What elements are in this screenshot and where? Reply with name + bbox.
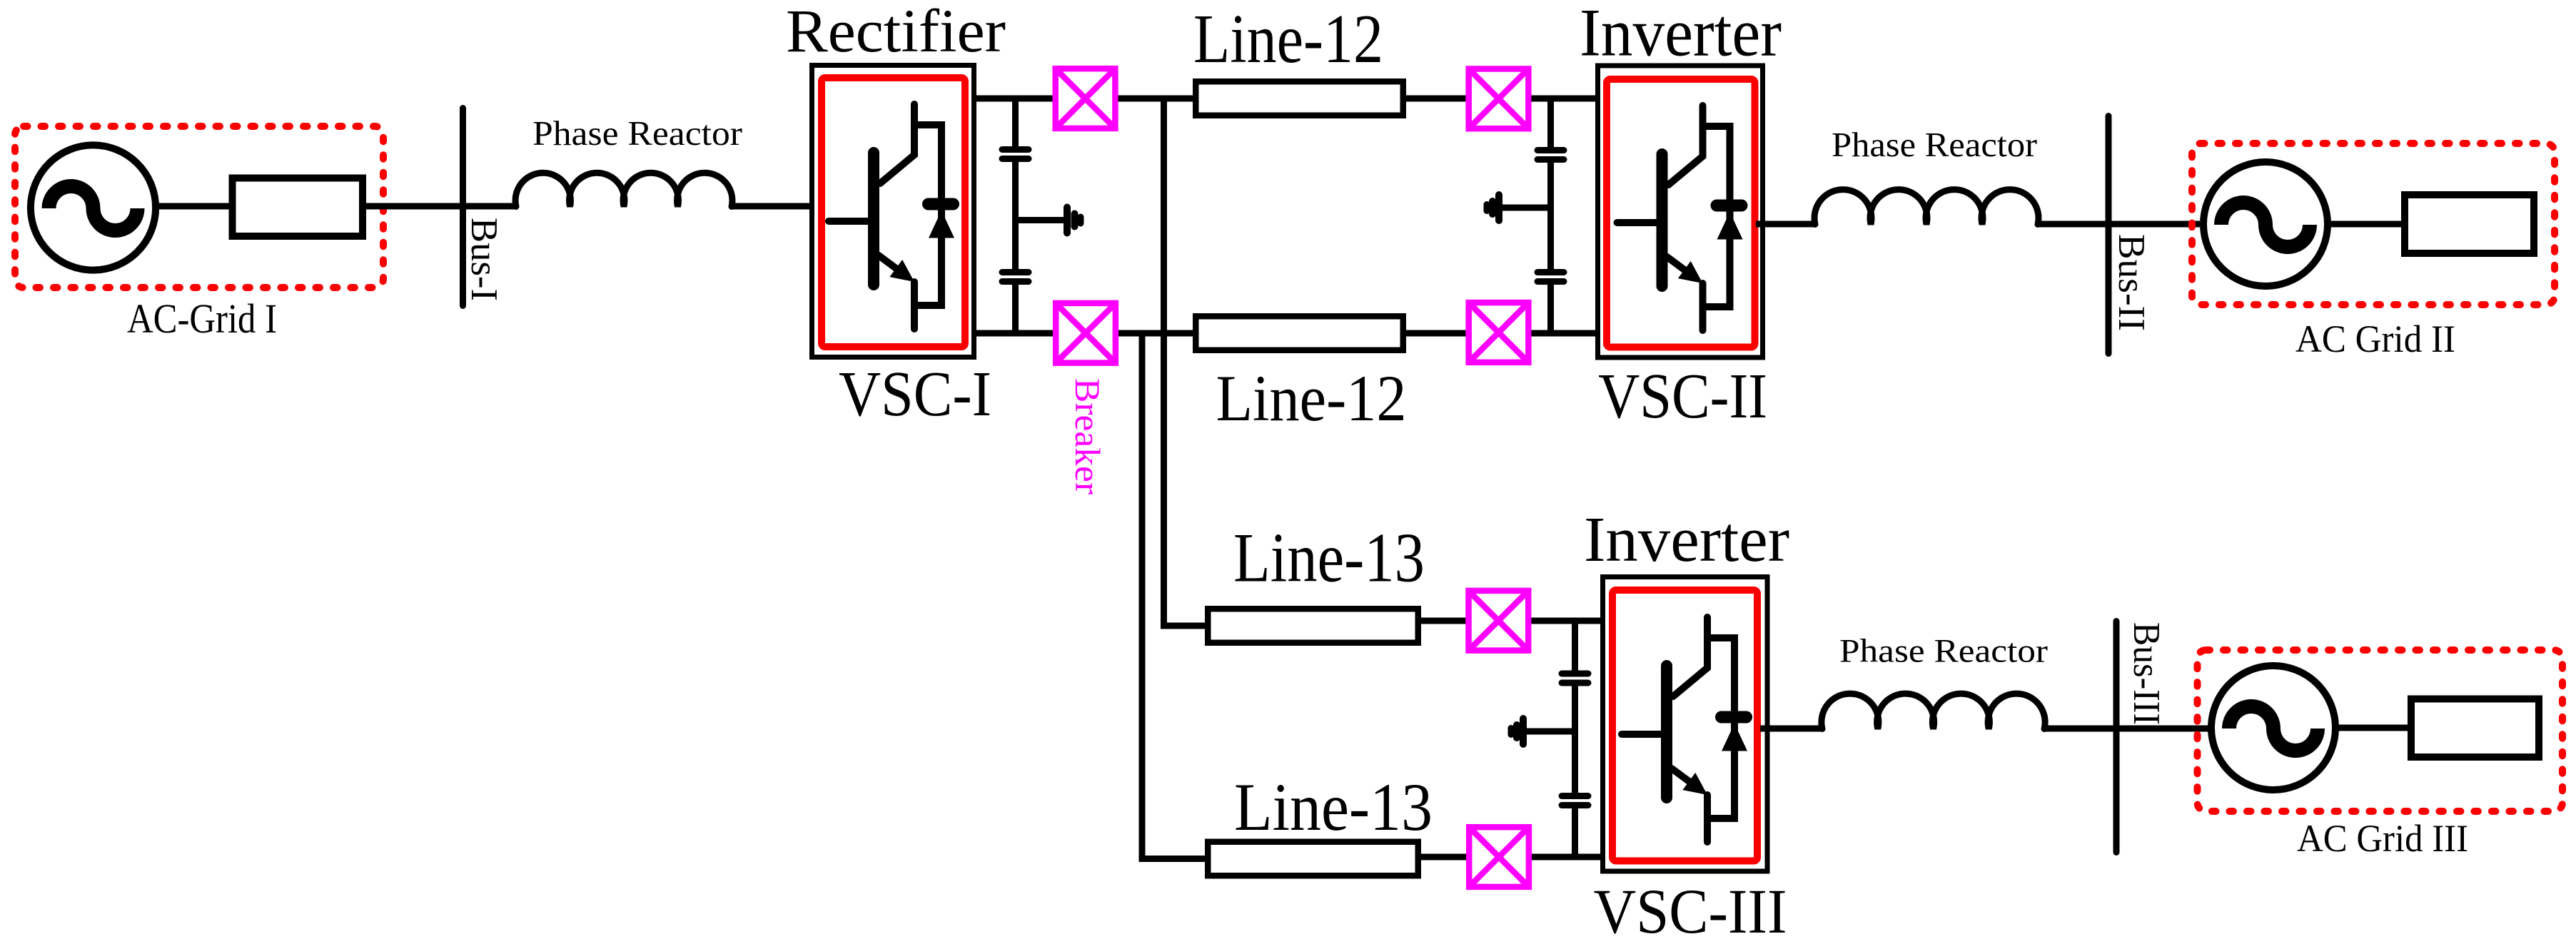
VSC converter VSC-III red inner box [1612, 590, 1757, 861]
grid impedance Z3 rectangle [2411, 699, 2539, 758]
svg-text:Bus-II: Bus-II [2111, 234, 2152, 331]
wire G3 to Z3 [2335, 725, 2411, 731]
IGBT with antiparallel diode inside VSC-I [829, 104, 954, 329]
svg-text:AC Grid II: AC Grid II [2295, 318, 2455, 360]
svg-text:Bus-I: Bus-I [463, 218, 505, 301]
DC-link capacitor branch C1 [1002, 98, 1029, 333]
top DC wire breaker to VSC-III [1532, 618, 1606, 624]
wire G2 to Z2 [2328, 221, 2405, 228]
AC Grid II red dashed boundary box [2192, 143, 2555, 305]
svg-text:VSC-I: VSC-I [839, 359, 991, 430]
VSC converter VSC-II black box [1598, 66, 1763, 357]
transmission line box Line-13 lower [1208, 842, 1418, 876]
svg-text:Line-12: Line-12 [1193, 1, 1383, 77]
phase reactor coil L3 [1822, 694, 2045, 729]
sine wave glyph G3 [2229, 706, 2318, 751]
wire reactor L3 to Bus-III to grid III [2044, 726, 2212, 732]
breaker B3 top [1469, 591, 1529, 651]
VSC converter VSC-I black box [812, 66, 974, 357]
AC-Grid I red dashed boundary box [15, 126, 383, 288]
ground stub wire GND1 [1016, 217, 1064, 223]
sine wave glyph G1 [49, 186, 138, 230]
ground symbol GND1 [1067, 208, 1081, 233]
Bus-III bar [2113, 621, 2120, 853]
wire reactor L2 to Bus-II to grid II [2038, 221, 2200, 228]
IGBT with antiparallel diode inside VSC-III [1622, 617, 1747, 842]
AC source circle G3 [2211, 666, 2335, 790]
transmission line box Line-13 upper [1208, 609, 1418, 643]
svg-text:Line-12: Line-12 [1216, 362, 1407, 435]
bottom DC wire breaker to Line-12 with junction node B [1118, 330, 1193, 337]
branch wire node B down to Line-13 lower [1142, 333, 1205, 859]
grid impedance Z2 rectangle [2405, 195, 2534, 253]
svg-text:Line-13: Line-13 [1233, 519, 1425, 597]
wire Line-13 lower to breaker B3b [1421, 854, 1466, 861]
grid impedance Z1 rectangle [233, 178, 363, 237]
ground stub wire GND2 [1502, 205, 1551, 211]
AC source circle G1 [31, 145, 156, 270]
DC-link capacitor branch C3 [1562, 621, 1588, 857]
ground stub wire GND3 [1527, 729, 1575, 735]
svg-text:Phase Reactor: Phase Reactor [1839, 633, 2048, 670]
sine wave glyph G2 [2221, 203, 2310, 247]
wire Line-12 top to breaker B2t [1406, 96, 1466, 102]
wire reactor L1 to VSC-I [732, 203, 814, 210]
breaker B1 top [1056, 68, 1116, 128]
VSC converter VSC-II red inner box [1607, 79, 1755, 347]
VSC converter VSC-III black box [1603, 577, 1768, 872]
breaker B3 bottom [1469, 827, 1529, 887]
top DC wire breaker to VSC-II [1532, 96, 1601, 102]
svg-text:VSC-II: VSC-II [1598, 361, 1767, 432]
phase reactor coil L2 [1814, 190, 2039, 225]
transmission line box Line-12 top [1196, 81, 1403, 116]
breaker B2 bottom [1469, 303, 1529, 362]
Bus-I bar [460, 108, 466, 306]
branch wire node A down to Line-13 upper [1164, 98, 1206, 626]
wire VSC-II to phase reactor L2 [1756, 221, 1815, 228]
top DC wire breaker to Line-12 with junction node A [1118, 96, 1193, 102]
IGBT with antiparallel diode inside VSC-II [1617, 106, 1743, 330]
wire VSC-III to phase reactor L3 [1760, 726, 1822, 732]
AC Grid III red dashed boundary box [2198, 650, 2563, 811]
phase reactor coil L1 [515, 173, 732, 206]
wire Line-12 bottom to breaker B2b [1406, 330, 1466, 337]
DC-link capacitor branch C2 [1537, 98, 1564, 333]
bottom DC wire VSC-I to breaker [976, 330, 1053, 337]
svg-text:VSC-III: VSC-III [1594, 877, 1787, 944]
svg-text:Rectifier: Rectifier [786, 0, 1006, 65]
svg-text:Phase Reactor: Phase Reactor [532, 113, 742, 153]
wire G1 to Z1 [156, 203, 232, 210]
transmission line box Line-12 bottom [1196, 316, 1403, 350]
bottom DC wire breaker to VSC-III [1532, 854, 1605, 861]
svg-text:Breaker: Breaker [1068, 378, 1108, 494]
wire Line-13 upper to breaker B3t [1421, 618, 1466, 624]
VSC converter VSC-I red inner box [822, 78, 965, 347]
AC source circle G2 [2203, 162, 2328, 286]
top DC wire VSC-I to breaker [976, 96, 1053, 102]
wire Z1 to Bus-I to phase reactor [363, 203, 516, 210]
ground symbol GND3 [1511, 719, 1523, 744]
svg-text:AC Grid III: AC Grid III [2297, 817, 2468, 860]
breaker B2 top [1469, 69, 1529, 129]
svg-text:Inverter: Inverter [1580, 0, 1782, 70]
Bus-II bar [2106, 116, 2112, 354]
svg-text:Inverter: Inverter [1584, 504, 1789, 575]
svg-text:Bus-III: Bus-III [2126, 622, 2167, 725]
svg-text:Line-13: Line-13 [1234, 769, 1433, 845]
svg-text:AC-Grid I: AC-Grid I [127, 295, 277, 342]
bottom DC wire breaker to VSC-II [1532, 330, 1601, 337]
svg-text:Phase Reactor: Phase Reactor [1832, 125, 2037, 164]
ground symbol GND2 [1487, 195, 1499, 220]
breaker B1 bottom [1056, 303, 1116, 363]
